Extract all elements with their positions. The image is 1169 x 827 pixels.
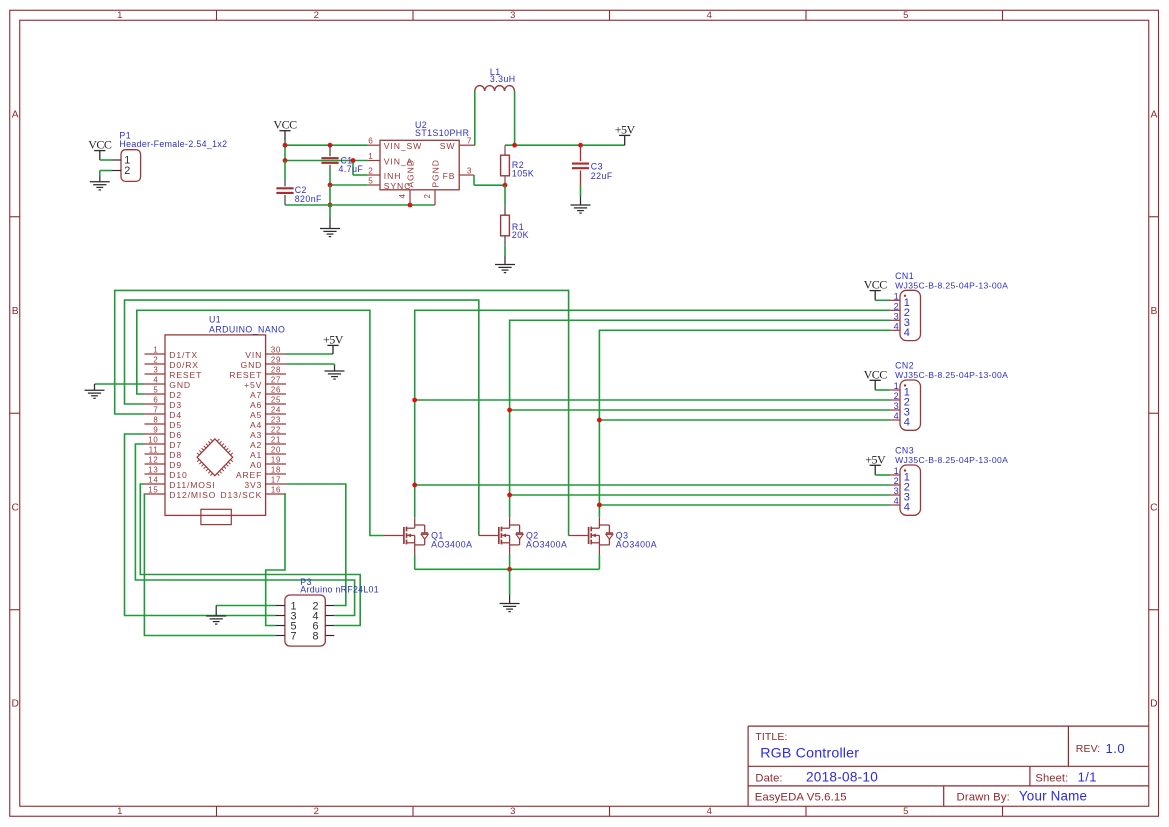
junction Q3 net / CN3 pin 4: [597, 503, 602, 508]
junction ground rail at AGND: [408, 203, 413, 208]
svg-text:2: 2: [124, 165, 130, 177]
svg-text:20: 20: [271, 446, 281, 455]
svg-text:RGB Controller: RGB Controller: [760, 745, 859, 761]
ground (C3): [571, 197, 591, 214]
svg-text:D1/TX: D1/TX: [169, 350, 198, 360]
U1 pin 4 GND: [145, 383, 166, 385]
power flag +5V (regulator output): [619, 135, 630, 145]
power flag VCC (CN1): [870, 291, 881, 301]
svg-text:PGND: PGND: [431, 159, 441, 187]
svg-text:A7: A7: [250, 390, 262, 400]
wire U1 GND pin 4 to ground: [95, 383, 145, 385]
junction VCC/VIN_A: [283, 158, 288, 163]
inductor L1: [475, 86, 515, 91]
connector P1: [121, 150, 141, 182]
svg-text:22: 22: [271, 426, 281, 435]
svg-text:7: 7: [467, 137, 472, 146]
svg-text:15: 15: [148, 486, 158, 495]
U1 pin 16 D13/SCK: [266, 493, 286, 495]
power flag VCC (P1): [94, 151, 105, 160]
svg-text:7: 7: [153, 406, 158, 415]
U1 pin 5 D2: [145, 393, 166, 395]
svg-text:16: 16: [271, 486, 281, 495]
wire VCC to CN1 pin 1: [875, 299, 890, 301]
svg-text:4: 4: [894, 496, 899, 506]
capacitor C1: [329, 145, 331, 156]
svg-text:D3: D3: [169, 400, 182, 410]
wire D7 net to P3 pin 4: [135, 444, 354, 616]
U2 pin 5 SYNC: [368, 184, 380, 186]
svg-text:WJ35C-B-8.25-04P-13-00A: WJ35C-B-8.25-04P-13-00A: [895, 280, 1008, 290]
wire R1 to ground: [504, 246, 506, 256]
svg-text:2018-08-10: 2018-08-10: [806, 769, 878, 784]
junction INH tap: [351, 158, 356, 163]
svg-text:A6: A6: [250, 400, 262, 410]
svg-text:D12/MISO: D12/MISO: [169, 490, 216, 500]
wire D11/MOSI net to P3 pin 6: [140, 484, 360, 626]
svg-text:3: 3: [467, 166, 472, 175]
svg-text:1: 1: [117, 10, 122, 21]
ground (U1 pin 4): [85, 384, 105, 398]
U2 pin 6 VIN_SW: [368, 144, 380, 146]
svg-text:RESET: RESET: [169, 370, 202, 380]
connector CN3: [900, 465, 921, 515]
power flag +5V (CN3): [870, 465, 881, 475]
svg-text:5: 5: [903, 10, 908, 21]
U1 pin 7 D4: [145, 413, 166, 415]
svg-text:3V3: 3V3: [244, 480, 262, 490]
svg-text:6: 6: [153, 396, 158, 405]
U1 pin 25 A6: [266, 403, 286, 405]
U1 pin 18 AREF: [266, 473, 286, 475]
wire C1/SYNC down to ground rail: [329, 185, 331, 205]
svg-text:4: 4: [707, 10, 712, 21]
resistor R2: [504, 145, 506, 155]
U1 pin 13 D10: [145, 473, 166, 475]
svg-text:GND: GND: [241, 360, 263, 370]
svg-text:9: 9: [153, 426, 158, 435]
wire VCC to CN2 pin 1: [875, 389, 890, 391]
wire U1 VIN to +5V: [286, 353, 333, 355]
svg-text:Arduino nRF24L01: Arduino nRF24L01: [300, 585, 379, 595]
svg-text:2: 2: [314, 806, 319, 817]
svg-text:VCC: VCC: [864, 367, 888, 381]
transistor Q2 AO3400A: [479, 517, 524, 554]
svg-text:2: 2: [153, 356, 158, 365]
capacitor C2: [284, 161, 286, 181]
wire bus to ground: [509, 569, 511, 595]
wire Q1 drain net (LED channel 1): [415, 310, 890, 517]
U1 pin 14 D11/MOSI: [145, 483, 166, 485]
svg-text:Drawn By:: Drawn By:: [957, 791, 1010, 803]
ground (P1): [90, 177, 110, 190]
svg-text:ST1S10PHR: ST1S10PHR: [415, 128, 469, 138]
svg-text:3: 3: [894, 486, 899, 496]
svg-text:29: 29: [271, 356, 281, 365]
svg-text:GND: GND: [169, 380, 191, 390]
wire D2 net to Q1 gate: [137, 310, 384, 535]
svg-text:Header-Female-2.54_1x2: Header-Female-2.54_1x2: [119, 139, 227, 149]
svg-text:5: 5: [903, 806, 908, 817]
ground (P3 pin 1): [206, 606, 226, 625]
junction Q3 net / CN2 pin 4: [597, 418, 602, 423]
wire D12/MISO net to P3 pin 7: [144, 494, 275, 636]
wire VCC to U2 VIN_A: [285, 160, 368, 162]
svg-text:105K: 105K: [512, 169, 534, 179]
svg-text:3: 3: [894, 401, 899, 411]
svg-text:4: 4: [894, 411, 899, 421]
svg-text:Sheet:: Sheet:: [1035, 772, 1068, 784]
svg-text:+5V: +5V: [615, 122, 636, 136]
svg-text:Your Name: Your Name: [1019, 789, 1087, 804]
svg-text:6: 6: [368, 137, 373, 146]
svg-text:AREF: AREF: [236, 470, 262, 480]
U1 pin 22 A3: [266, 433, 286, 435]
svg-text:ARDUINO_NANO: ARDUINO_NANO: [209, 325, 285, 335]
svg-text:12: 12: [148, 456, 158, 465]
wire VCC to P1 pin 1: [100, 159, 112, 161]
U2 pin 4 AGND: [409, 190, 411, 205]
wire VIN_A branch to INH: [352, 161, 354, 176]
svg-text:1: 1: [153, 346, 158, 355]
svg-text:25: 25: [271, 396, 281, 405]
U1 pin 23 A4: [266, 423, 286, 425]
U1 pin 15 D12/MISO: [145, 493, 166, 495]
U1 pin 29 GND: [266, 363, 286, 365]
U1 pin 24 A5: [266, 413, 286, 415]
wire VCC rail to U2 VIN_SW: [284, 140, 286, 145]
svg-text:D4: D4: [169, 410, 182, 420]
svg-text:D10: D10: [169, 470, 187, 480]
wire inductor to +5V rail: [514, 91, 516, 145]
wire U1 GND pin 29 to ground: [286, 363, 335, 365]
junction L1/+5V rail: [512, 143, 517, 148]
U1 pin 2 D0/RX: [145, 363, 166, 365]
U1 pin 12 D9: [145, 463, 166, 465]
svg-text:30: 30: [271, 346, 281, 355]
svg-text:U1: U1: [209, 314, 221, 324]
svg-text:RESET: RESET: [229, 370, 262, 380]
svg-text:+5V: +5V: [244, 380, 262, 390]
svg-text:18: 18: [271, 466, 281, 475]
U1 pin 20 A1: [266, 453, 286, 455]
svg-text:2: 2: [894, 391, 899, 401]
svg-text:C: C: [1150, 502, 1158, 513]
svg-text:D13/SCK: D13/SCK: [220, 490, 262, 500]
title block: [748, 726, 1149, 806]
svg-text:4: 4: [707, 806, 712, 817]
svg-text:VIN_SW: VIN_SW: [384, 141, 422, 151]
junction Q1 net / CN3 pin 2: [412, 483, 417, 488]
junction C1 top: [328, 143, 333, 148]
U1 pin 1 D1/TX: [145, 353, 166, 355]
U1 pin 19 A0: [266, 463, 286, 465]
wire source bus Q1-Q3: [414, 555, 416, 570]
svg-text:1: 1: [117, 806, 122, 817]
svg-text:WJ35C-B-8.25-04P-13-00A: WJ35C-B-8.25-04P-13-00A: [895, 370, 1008, 380]
power flag +5V (U1 VIN): [327, 345, 338, 354]
svg-text:1/1: 1/1: [1078, 769, 1097, 784]
svg-text:A3: A3: [250, 430, 262, 440]
wire SYNC to ground net: [330, 184, 368, 186]
wire D3 net to Q2 gate: [125, 300, 479, 535]
ground (U2 rail): [329, 205, 331, 218]
svg-text:A2: A2: [250, 440, 262, 450]
wire D6 net to P3 pin 3: [125, 434, 276, 616]
wire Q3 drain net (LED channel 3): [599, 330, 890, 517]
U1 pin 21 A2: [266, 443, 286, 445]
wire VCC down to VIN_A row: [284, 145, 286, 160]
junction VCC/VIN_SW: [283, 143, 288, 148]
ground (R1): [495, 256, 515, 273]
svg-text:+5V: +5V: [865, 452, 886, 466]
U1 connector glyph: [201, 509, 231, 524]
svg-text:27: 27: [271, 376, 281, 385]
svg-text:REV:: REV:: [1076, 743, 1101, 755]
svg-text:3: 3: [153, 366, 158, 375]
svg-text:1: 1: [894, 466, 899, 476]
svg-text:4: 4: [904, 327, 910, 339]
mcu U1 ARDUINO_NANO body: [165, 335, 266, 516]
svg-text:A1: A1: [250, 450, 262, 460]
svg-text:19: 19: [271, 456, 281, 465]
svg-text:D11/MOSI: D11/MOSI: [169, 480, 215, 490]
svg-text:3.3uH: 3.3uH: [490, 74, 516, 84]
junction C3/+5V rail: [578, 143, 583, 148]
U1 chip glyph: [197, 439, 233, 476]
wire P3 pin 1 to ground: [216, 605, 275, 607]
svg-text:7: 7: [291, 630, 297, 642]
svg-text:A: A: [12, 109, 19, 120]
junction SYNC/C1: [328, 183, 333, 188]
ground (U1 pin 29): [325, 366, 345, 380]
op-amp U2 regulator ST1S10PHR body: [380, 140, 459, 190]
U1 pin 10 D7: [145, 443, 166, 445]
svg-text:D7: D7: [169, 440, 182, 450]
resistor R1: [504, 185, 506, 205]
svg-text:B: B: [1150, 306, 1157, 317]
svg-text:8: 8: [153, 416, 158, 425]
power flag VCC (CN2): [870, 380, 881, 390]
svg-text:D6: D6: [169, 430, 182, 440]
svg-text:VCC: VCC: [273, 118, 297, 132]
capacitor C3: [580, 145, 582, 161]
wire FB to divider node: [473, 175, 475, 185]
svg-text:2: 2: [894, 476, 899, 486]
svg-text:Date:: Date:: [755, 772, 782, 784]
svg-text:D2: D2: [169, 390, 182, 400]
svg-text:1: 1: [368, 152, 373, 161]
junction FB divider node: [503, 183, 508, 188]
svg-text:AO3400A: AO3400A: [616, 539, 657, 549]
U2 pin 1 VIN_A: [368, 160, 380, 162]
svg-text:1.0: 1.0: [1106, 741, 1126, 756]
junction Q2 net / CN3 pin 3: [507, 493, 512, 498]
svg-text:VCC: VCC: [864, 278, 888, 292]
wire +5V to CN3 pin 1: [875, 474, 890, 476]
svg-text:SW: SW: [440, 141, 456, 151]
svg-text:TITLE:: TITLE:: [755, 731, 787, 743]
svg-text:FB: FB: [443, 171, 456, 181]
wire C3 to ground: [580, 185, 582, 197]
U2 pin 2 PGND: [434, 190, 436, 205]
svg-text:1: 1: [894, 291, 899, 301]
svg-text:AO3400A: AO3400A: [431, 539, 472, 549]
junction Q1 net / CN2 pin 2: [412, 398, 417, 403]
svg-text:VIN: VIN: [245, 350, 262, 360]
svg-text:2: 2: [894, 301, 899, 311]
svg-text:22uF: 22uF: [591, 171, 613, 181]
junction source bus / ground: [507, 567, 512, 572]
wire D13/SCK net to P3 pin 5: [266, 494, 286, 626]
wire SW pin up to inductor: [474, 144, 475, 146]
U1 pin 6 D3: [145, 403, 166, 405]
wire P1 pin 2 to ground: [100, 170, 112, 172]
wire Q2 drain net (LED channel 2): [510, 320, 890, 517]
power flag VCC (U2 input): [279, 131, 290, 141]
svg-text:24: 24: [271, 406, 281, 415]
svg-text:4: 4: [904, 417, 910, 429]
svg-text:4: 4: [894, 321, 899, 331]
svg-text:28: 28: [271, 366, 281, 375]
U2 pin 2 INH: [368, 174, 380, 176]
svg-text:A5: A5: [250, 410, 262, 420]
junction ground rail at C1: [328, 203, 333, 208]
svg-text:11: 11: [149, 446, 159, 455]
svg-text:3: 3: [510, 806, 515, 817]
svg-text:D: D: [11, 699, 18, 710]
connector CN1: [900, 290, 921, 340]
svg-text:21: 21: [271, 436, 281, 445]
svg-text:+5V: +5V: [323, 332, 344, 346]
svg-text:AO3400A: AO3400A: [526, 539, 567, 549]
svg-text:2: 2: [314, 10, 319, 21]
svg-text:VCC: VCC: [88, 138, 112, 152]
transistor Q3 AO3400A: [569, 517, 614, 554]
svg-text:3: 3: [510, 10, 515, 21]
connector P3: [285, 595, 325, 646]
svg-text:INH: INH: [384, 171, 402, 181]
wire ground rail C2 to PGND: [285, 204, 435, 206]
U1 pin 11 D8: [145, 453, 166, 455]
U2 pin 3 FB: [459, 174, 474, 176]
transistor Q1 AO3400A: [384, 517, 429, 554]
svg-text:A: A: [1150, 109, 1157, 120]
svg-text:4: 4: [904, 502, 910, 514]
svg-text:17: 17: [271, 476, 281, 485]
svg-text:EasyEDA V5.6.15: EasyEDA V5.6.15: [755, 791, 847, 803]
svg-text:D9: D9: [169, 460, 182, 470]
svg-text:20K: 20K: [512, 230, 529, 240]
svg-text:13: 13: [148, 466, 158, 475]
svg-text:AGND: AGND: [405, 159, 415, 187]
svg-text:2: 2: [423, 194, 432, 199]
U1 pin 3 RESET: [145, 373, 166, 375]
U1 pin 28 RESET: [266, 373, 286, 375]
svg-text:10: 10: [148, 436, 158, 445]
connector CN2: [900, 380, 921, 430]
svg-text:14: 14: [148, 476, 158, 485]
junction Q2 net / CN2 pin 3: [507, 408, 512, 413]
U1 pin 9 D6: [145, 433, 166, 435]
svg-text:D0/RX: D0/RX: [169, 360, 199, 370]
U1 pin 26 A7: [266, 393, 286, 395]
svg-text:A4: A4: [250, 420, 262, 430]
svg-text:26: 26: [271, 386, 281, 395]
svg-text:B: B: [12, 306, 19, 317]
svg-text:D: D: [1150, 699, 1157, 710]
svg-text:WJ35C-B-8.25-04P-13-00A: WJ35C-B-8.25-04P-13-00A: [895, 455, 1008, 465]
svg-text:D8: D8: [169, 450, 182, 460]
U1 pin 30 VIN: [266, 353, 286, 355]
svg-text:820nF: 820nF: [295, 194, 322, 204]
svg-text:D5: D5: [169, 420, 182, 430]
svg-text:2: 2: [368, 166, 373, 175]
svg-text:8: 8: [312, 630, 318, 642]
U1 pin 27 +5V: [266, 383, 286, 385]
svg-text:4: 4: [398, 194, 407, 199]
U1 pin 17 3V3: [266, 483, 286, 485]
U2 pin 7 SW: [459, 144, 474, 146]
svg-text:5: 5: [368, 176, 373, 185]
svg-text:5: 5: [153, 386, 158, 395]
svg-text:1: 1: [894, 381, 899, 391]
wire D4 net to Q3 gate: [115, 290, 569, 535]
svg-text:C: C: [11, 502, 19, 513]
svg-text:A0: A0: [250, 460, 262, 470]
svg-text:3: 3: [894, 311, 899, 321]
U1 pin 8 D5: [145, 423, 166, 425]
wire 3V3 net to P3 pin 2: [286, 484, 346, 606]
ground (transistor bus): [500, 595, 520, 612]
svg-text:C3: C3: [591, 162, 603, 172]
svg-text:4: 4: [153, 376, 158, 385]
svg-text:4.7uF: 4.7uF: [339, 164, 364, 174]
svg-text:23: 23: [271, 416, 281, 425]
wire C1 bottom to SYNC row: [329, 169, 331, 185]
